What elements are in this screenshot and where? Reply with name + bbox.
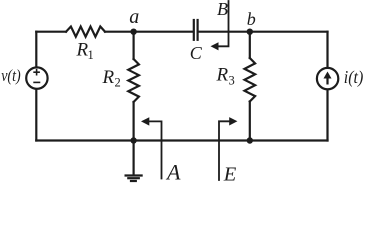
branch marker E line	[219, 121, 230, 180]
svg-text:C: C	[190, 43, 203, 63]
wire top-left segment	[36, 31, 66, 33]
svg-text:A: A	[165, 160, 181, 185]
capacitor C left plate	[193, 20, 195, 40]
svg-text:R: R	[216, 64, 229, 85]
voltage source minus sign	[33, 81, 40, 83]
branch marker A line	[149, 121, 162, 178]
capacitor C right plate	[197, 20, 199, 40]
wire R2 to bottom	[133, 102, 135, 141]
current source arrow shaft	[326, 78, 328, 85]
ground bars	[126, 174, 142, 176]
resistor R3	[245, 58, 256, 102]
svg-text:a: a	[129, 6, 139, 28]
wire R3 to bottom	[249, 102, 251, 141]
resistor R1	[66, 27, 105, 37]
wire top middle (R1 to capacitor)	[105, 31, 193, 33]
svg-text:2: 2	[115, 76, 121, 90]
svg-text:B: B	[217, 0, 228, 19]
resistor R2	[128, 59, 139, 102]
current source arrowhead (points up)	[324, 72, 332, 79]
arrowhead of E marker (points right)	[229, 117, 237, 125]
ground stem	[133, 141, 135, 175]
wire right upper	[326, 32, 328, 68]
wire left upper	[35, 32, 37, 67]
svg-text:E: E	[223, 163, 237, 185]
wire node b to R3	[249, 32, 251, 58]
junction dot below R3	[247, 137, 253, 143]
svg-text:b: b	[247, 9, 256, 29]
svg-text:i(t): i(t)	[344, 67, 364, 87]
wire left lower	[35, 89, 37, 141]
current source i(t) circle	[317, 68, 338, 89]
voltage source plus sign	[33, 69, 40, 83]
arrowhead of A marker (points left)	[141, 117, 149, 125]
junction dot below R2	[130, 137, 136, 143]
svg-text:R: R	[102, 67, 115, 88]
voltage source v(t) circle	[26, 67, 47, 88]
wire right lower	[326, 90, 328, 141]
svg-text:v(t): v(t)	[1, 67, 20, 85]
arrowhead of B marker (points left)	[211, 42, 219, 50]
wire top right segment	[199, 31, 328, 33]
svg-text:1: 1	[88, 48, 94, 62]
branch marker B line	[219, 1, 229, 46]
wire bottom	[36, 139, 327, 141]
node b junction dot	[247, 29, 253, 35]
svg-text:3: 3	[229, 73, 235, 87]
node a junction dot	[130, 29, 136, 35]
wire node a to R2	[133, 32, 135, 59]
